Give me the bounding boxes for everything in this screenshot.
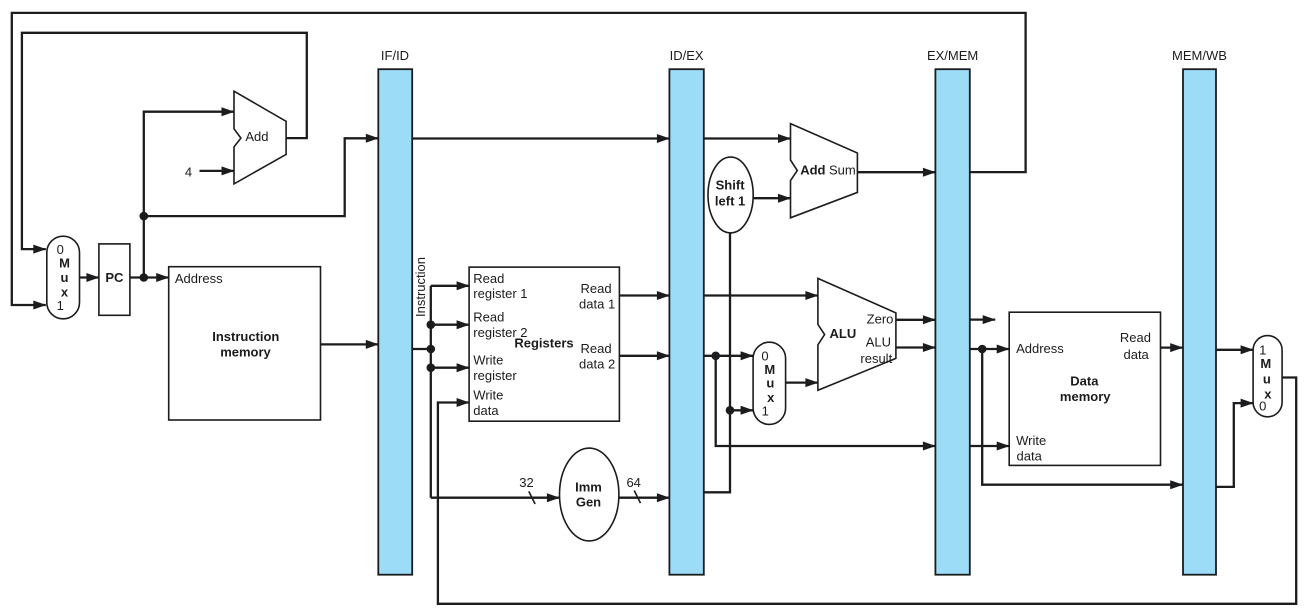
svg-text:Read: Read (581, 281, 612, 296)
wire: instruction to Read register 2 (431, 324, 469, 326)
wire: immediate to ALU mux input 1 (730, 409, 753, 411)
svg-text:64: 64 (626, 475, 640, 490)
pipeline register ID/EX (669, 69, 703, 575)
pipeline register MEM/WB (1183, 69, 1216, 575)
wire: Zero stub out of EX/MEM (970, 318, 995, 320)
svg-text:Add: Add (245, 129, 268, 144)
svg-text:EX/MEM: EX/MEM (927, 48, 978, 63)
svg-text:Add: Add (800, 163, 825, 178)
wire: Read data 1 from ID/EX to ALU (704, 294, 818, 296)
wire: PC mux output to PC (80, 276, 99, 278)
svg-text:Address: Address (1016, 341, 1064, 356)
junction dot instruction to Write register (427, 363, 436, 372)
wire: ALU result to EX/MEM (896, 346, 936, 348)
junction dot Read data 2 branch (711, 352, 720, 361)
wire: instruction to Read register 1 (431, 285, 469, 287)
svg-text:register 1: register 1 (473, 286, 527, 301)
wire: PC to Instruction memory Address (130, 276, 169, 278)
svg-text:IF/ID: IF/ID (381, 48, 409, 63)
wire: write data from EX/MEM to Data memory (970, 445, 1009, 447)
wire: Read data 2 to ID/EX (619, 355, 669, 357)
registers box (469, 267, 619, 421)
svg-text:u: u (1263, 371, 1271, 386)
wire: PC value to IF/ID (144, 138, 378, 216)
wire: PC value vertical riser to Add (144, 112, 234, 278)
svg-text:4: 4 (185, 164, 192, 179)
svg-text:M: M (1260, 356, 1271, 371)
PC mux (47, 236, 80, 319)
wire: ALU Zero to EX/MEM (896, 319, 936, 321)
svg-text:0: 0 (1259, 398, 1266, 413)
svg-text:Instruction: Instruction (413, 257, 428, 317)
wire: PC+4 loop from Add output to PC mux input 0 (22, 33, 307, 249)
wire: ALU result bypass down to MEM/WB (982, 349, 1182, 485)
svg-text:register: register (473, 368, 517, 383)
svg-text:ALU: ALU (830, 326, 857, 341)
ALU mux (753, 342, 786, 424)
wire: ALU result from MEM/WB to WB mux input 0 (1216, 403, 1253, 487)
junction dot immediate branch to mux (726, 406, 735, 415)
wire: branch Add Sum to EX/MEM (857, 171, 935, 173)
junction dot ALU result branch (978, 345, 987, 354)
svg-text:1: 1 (57, 298, 64, 313)
wire: Read data 1 to ID/EX (619, 294, 669, 296)
wire: PC from IF/ID to ID/EX (412, 137, 670, 139)
svg-text:Read: Read (1120, 330, 1151, 345)
svg-text:Sum: Sum (829, 163, 856, 178)
svg-text:Shift: Shift (716, 178, 746, 193)
adder Add (branch target) (791, 124, 858, 218)
adder Add (PC+4) (234, 91, 286, 184)
wire: instruction from IF/ID to distribution node (412, 348, 431, 350)
svg-text:Address: Address (175, 271, 223, 286)
PC register (99, 244, 130, 315)
svg-text:Write: Write (473, 388, 503, 403)
ALU (818, 278, 896, 390)
wire: immediate from ID/EX up to Shift left 1 (704, 233, 730, 492)
svg-text:left 1: left 1 (715, 194, 745, 209)
wire: write-back loop from WB mux to Registers Write data (438, 378, 1296, 604)
wire: Read data from MEM/WB to WB mux input 1 (1216, 349, 1253, 351)
svg-text:Write: Write (473, 353, 503, 368)
Imm Gen ellipse (560, 448, 619, 541)
wire: Shift left 1 to branch Add (753, 197, 790, 199)
svg-text:Zero: Zero (867, 311, 894, 326)
svg-text:Data: Data (1070, 373, 1099, 388)
svg-text:M: M (59, 256, 70, 271)
wire: Instruction memory output to IF/ID (321, 343, 379, 345)
svg-text:Imm: Imm (575, 479, 602, 494)
svg-text:Registers: Registers (514, 336, 573, 351)
wire: Read data from Data memory to MEM/WB (1161, 346, 1183, 348)
wire: PC from ID/EX to branch Add (704, 137, 791, 139)
wire: instruction vertical bus (430, 286, 432, 498)
Shift left 1 ellipse (708, 157, 753, 233)
svg-text:Instruction: Instruction (212, 329, 279, 344)
svg-text:data: data (1017, 449, 1043, 464)
svg-text:data 1: data 1 (579, 297, 615, 312)
svg-text:ID/EX: ID/EX (670, 48, 704, 63)
wire: ALU mux output to ALU (785, 381, 818, 383)
svg-text:ALU: ALU (866, 335, 891, 350)
svg-text:result: result (860, 351, 892, 366)
svg-text:memory: memory (1060, 389, 1111, 404)
wire: ALU result from EX/MEM to Data memory Address (970, 348, 1009, 350)
svg-text:u: u (61, 270, 69, 285)
pipeline register EX/MEM (935, 69, 969, 575)
data memory box (1009, 312, 1160, 465)
wire: Read data 2 from ID/EX to ALU mux input 0 (704, 355, 753, 357)
wire: Read data 2 down to EX/MEM (write data) (716, 356, 936, 446)
svg-text:32: 32 (519, 475, 533, 490)
svg-text:u: u (766, 376, 774, 391)
svg-text:Read: Read (581, 341, 612, 356)
svg-text:Read: Read (473, 310, 504, 325)
svg-text:data 2: data 2 (579, 357, 615, 372)
wire: instruction 32-bit to Imm Gen (431, 497, 560, 499)
wire: constant 4 to Add (200, 170, 235, 172)
junction dot PC riser to IF/ID (140, 212, 149, 221)
svg-text:MEM/WB: MEM/WB (1172, 48, 1227, 63)
svg-text:Write: Write (1016, 433, 1046, 448)
pipeline register IF/ID (378, 69, 412, 575)
wire: branch target feedback from EX/MEM to PC mux input 1 (12, 13, 1026, 305)
wire: instruction to Write register (431, 367, 469, 369)
junction dot instruction to Read register 2 (427, 320, 436, 329)
instruction memory box (169, 267, 321, 420)
junction dot instruction main (427, 345, 436, 354)
junction dot on PC output (140, 273, 149, 282)
svg-text:memory: memory (220, 345, 271, 360)
svg-text:Read: Read (473, 271, 504, 286)
svg-text:data: data (1123, 347, 1149, 362)
wire: Imm Gen 64-bit output to ID/EX (619, 497, 670, 499)
WB mux (1253, 336, 1282, 417)
svg-text:data: data (473, 403, 499, 418)
svg-text:1: 1 (762, 404, 769, 419)
svg-text:Gen: Gen (576, 495, 601, 510)
svg-text:PC: PC (105, 270, 124, 285)
